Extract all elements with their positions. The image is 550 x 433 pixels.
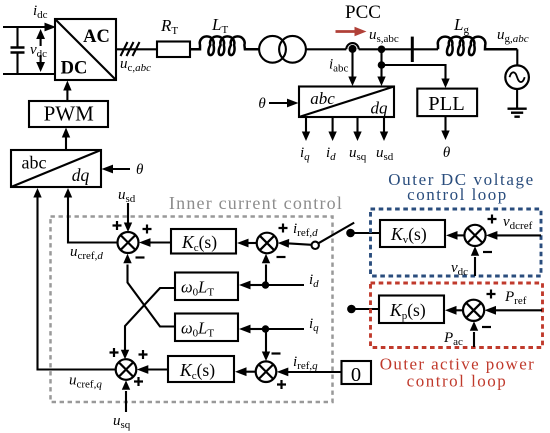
wire S5 to Kv (446, 231, 464, 240)
wire u_sq to S3 (122, 380, 130, 412)
svg-text:vdcref: vdcref (503, 214, 533, 232)
converter U1 AC/DC (55, 19, 116, 80)
current sensor hop (346, 43, 358, 53)
inductor L_g (438, 15, 518, 55)
three-phase slashes (121, 42, 140, 56)
svg-text:θ: θ (136, 162, 144, 178)
svg-text:ucref,d: ucref,d (70, 244, 103, 262)
svg-text:PWM: PWM (44, 102, 95, 126)
svg-text:dq: dq (72, 165, 90, 185)
theta input to inverse box (102, 162, 145, 178)
PWM box (29, 101, 108, 127)
cross-coupling block wLT1 (175, 273, 238, 301)
output i_d of measurement box (326, 117, 337, 163)
input stub i_d (262, 272, 319, 290)
wire i_d dot to wLT1 (239, 281, 266, 290)
svg-text:Inner current control: Inner current control (169, 193, 343, 213)
resistor R_T (157, 16, 190, 57)
svg-text:ucref,q: ucref,q (69, 373, 102, 391)
svg-text:Kc(s): Kc(s) (181, 232, 217, 254)
wire transformer to PCC bus (306, 48, 346, 50)
svg-text:ω0LT: ω0LT (181, 319, 214, 340)
svg-text:RT: RT (160, 16, 178, 37)
wire P_ref to S6 (485, 306, 543, 315)
wire contact to Kp (351, 308, 379, 310)
svg-text:abc: abc (310, 89, 335, 108)
outer DC voltage dashed box (371, 209, 542, 276)
wire node down (380, 49, 382, 65)
node us on bus (378, 46, 386, 54)
svg-text:uc,abc: uc,abc (120, 56, 151, 74)
outer active power dashed box (371, 283, 543, 348)
svg-text:PCC: PCC (345, 2, 381, 23)
wire node to PLL (382, 65, 450, 88)
switch blade (318, 223, 354, 244)
sign plus top S2 (279, 224, 288, 233)
svg-text:PLL: PLL (428, 93, 464, 115)
switch contact upper (346, 229, 355, 238)
grid source (505, 49, 529, 108)
sign plus S5 (488, 215, 497, 224)
wire PLL theta output (441, 116, 451, 161)
wire DC bus top (3, 23, 56, 32)
wire i_q dot to wLT2 (239, 325, 266, 334)
wire switch to S2 (278, 239, 312, 248)
sign minus S6 (482, 326, 491, 328)
svg-text:Lg: Lg (453, 15, 469, 36)
svg-text:usq: usq (113, 413, 131, 431)
PCC bus bar (411, 37, 414, 62)
v_dc measurement arrows (36, 29, 45, 72)
wire zero box to S4 (277, 368, 342, 377)
zero reference box (342, 361, 372, 386)
sign plus S6 (487, 290, 496, 299)
svg-text:id: id (309, 272, 319, 290)
summer S2 (257, 233, 278, 254)
wire converter AC output (116, 48, 157, 50)
output u_sd of measurement box (376, 117, 394, 163)
inverse transform box dq to abc (11, 150, 101, 187)
switch pole (312, 242, 319, 249)
sign plus right S3 (139, 350, 148, 359)
sign minus top S4 (272, 352, 281, 354)
wire S4 to Kc2 (235, 367, 256, 376)
input stub i_q (262, 316, 319, 334)
svg-text:iref,d: iref,d (293, 221, 318, 239)
ground (508, 109, 527, 117)
red power-flow arrow (336, 27, 367, 36)
inner current control dashed box (51, 217, 333, 403)
svg-text:id: id (326, 145, 336, 163)
wire v_dc to S5 (471, 246, 479, 276)
summer S6 (463, 300, 484, 321)
svg-text:control loop: control loop (407, 185, 508, 204)
wire wLT1 to S3 (crossing) (121, 288, 175, 359)
wire Kc2 to S3 (137, 365, 168, 374)
svg-text:θ: θ (443, 145, 451, 161)
svg-text:iref,q: iref,q (293, 354, 318, 372)
wire S1 to inverse box (64, 188, 118, 243)
svg-text:idc: idc (33, 3, 48, 21)
svg-text:usd: usd (376, 145, 394, 163)
controller Kc2 (168, 356, 234, 382)
svg-text:us,abc: us,abc (369, 27, 399, 45)
sign plus right S1 (143, 225, 152, 234)
capacitor Cdc (11, 27, 25, 74)
controller Kc1 (171, 229, 236, 254)
svg-text:LT: LT (211, 15, 228, 36)
svg-text:abc: abc (22, 153, 47, 173)
transformer T1 (259, 36, 306, 63)
switch contact lower (347, 305, 356, 314)
wire PWM to converter (63, 81, 71, 102)
summer S3 (116, 359, 137, 380)
svg-text:usd: usd (118, 187, 136, 205)
svg-text:dq: dq (371, 99, 389, 118)
theta input to measurement box (258, 96, 298, 112)
svg-text:usq: usq (349, 145, 367, 163)
wire wLT2 to S1 (crossing) (123, 254, 175, 327)
svg-text:Pac: Pac (443, 330, 463, 348)
svg-text:iabc: iabc (329, 57, 349, 75)
wire sensor to grid (359, 48, 438, 50)
controller Kv (380, 220, 445, 247)
svg-text:iq: iq (300, 145, 310, 163)
sign minus S5 (483, 251, 492, 253)
svg-text:vdc: vdc (451, 260, 468, 278)
svg-text:ug,abc: ug,abc (497, 27, 529, 45)
svg-text:vdc: vdc (30, 42, 47, 60)
wire u_s to measurement box (377, 65, 385, 86)
sign minus bottom S1 (136, 256, 145, 258)
wire v_dcref to S5 (486, 231, 541, 240)
cross-coupling block wLT2 (175, 314, 238, 342)
svg-text:Kc(s): Kc(s) (179, 360, 215, 382)
node branch (378, 61, 386, 69)
summer S4 (256, 361, 277, 382)
svg-text:θ: θ (258, 96, 266, 112)
svg-text:iq: iq (309, 316, 319, 334)
wire u_sd to summer S1 (124, 203, 132, 232)
output u_sq of measurement box (349, 117, 367, 163)
wire S6 to Kp (445, 306, 463, 315)
PLL box (417, 89, 477, 117)
summer S1 (118, 232, 139, 253)
output i_q of measurement box (300, 117, 310, 163)
controller Kp (379, 296, 444, 324)
sign plus bottom S3 (134, 377, 143, 386)
wire S2 to Kc1 (237, 239, 257, 248)
wire DC bus bottom (3, 73, 55, 75)
wire Kc1 to S1 (139, 238, 171, 247)
inductor L_T (190, 15, 259, 55)
svg-text:control loop: control loop (407, 372, 508, 391)
measurement box abc to dq (299, 87, 394, 118)
wire S3 to inverse box (33, 188, 115, 370)
summer S5 (464, 225, 485, 246)
wire P_ac to S6 (470, 321, 478, 347)
wire contact to Kv (351, 232, 381, 234)
svg-text:ω0LT: ω0LT (181, 278, 214, 299)
sign plus top-left S3 (110, 348, 119, 357)
svg-text:Kp(s): Kp(s) (389, 300, 426, 322)
wire i_q to S4 (262, 329, 270, 361)
wire i_d to S2 (262, 254, 270, 285)
svg-text:AC: AC (83, 27, 110, 47)
sign minus bottom S2 (277, 256, 286, 258)
svg-text:0: 0 (351, 364, 361, 386)
svg-text:DC: DC (61, 59, 88, 79)
wire dq/abc to PWM (62, 128, 70, 151)
svg-text:Kv(s): Kv(s) (390, 224, 427, 246)
wire i_abc to measurement box (348, 52, 356, 86)
sign plus bottom S4 (277, 380, 286, 389)
svg-text:Pref: Pref (504, 289, 527, 307)
sign plus top S1 (113, 221, 122, 230)
